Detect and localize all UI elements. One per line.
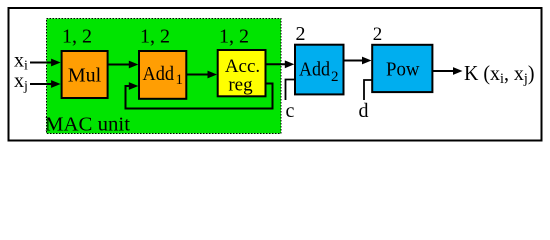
svg-text:Add: Add <box>299 59 330 81</box>
wire Pow to output <box>432 67 462 75</box>
MAC unit dotted green box <box>47 19 282 134</box>
block Add2 <box>295 45 344 95</box>
svg-text:c: c <box>286 100 295 122</box>
svg-text:d: d <box>359 100 369 122</box>
wire feedback Acc reg to Add1 <box>126 82 273 108</box>
wire d input into Pow <box>364 80 372 100</box>
block Acc reg <box>218 50 266 96</box>
wire Add2 to Pow <box>344 57 372 65</box>
wire x_j into Mul <box>30 80 61 88</box>
svg-text:Pow: Pow <box>386 59 420 81</box>
svg-text:Mul: Mul <box>68 65 102 87</box>
svg-text:reg: reg <box>228 75 253 96</box>
wire c input into Add2 <box>286 80 295 101</box>
block Pow <box>372 45 432 92</box>
wire x_i into Mul <box>30 59 61 67</box>
svg-text:2: 2 <box>331 69 339 85</box>
wire Acc reg to Add2 <box>266 60 295 68</box>
svg-text:1, 2: 1, 2 <box>62 25 92 47</box>
svg-text:MAC unit: MAC unit <box>45 114 130 136</box>
svg-text:1, 2: 1, 2 <box>219 25 249 47</box>
svg-text:1: 1 <box>176 72 184 88</box>
svg-text:1, 2: 1, 2 <box>140 25 170 47</box>
wire Add1 to Acc reg <box>186 71 217 79</box>
wire Mul to Add1 <box>107 61 138 69</box>
svg-text:2: 2 <box>373 24 383 45</box>
svg-text:2: 2 <box>296 23 306 45</box>
outer border frame <box>9 8 542 141</box>
svg-text:Add: Add <box>143 63 175 85</box>
block Mul <box>62 51 108 98</box>
block Add1 <box>139 51 186 99</box>
